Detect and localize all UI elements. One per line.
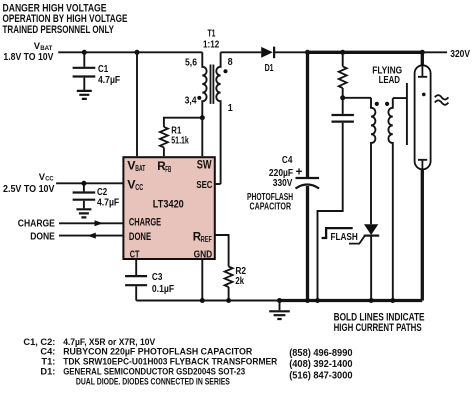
svg-text:(516) 847-3000: (516) 847-3000 [289, 370, 353, 381]
wire SEC pin [215, 183, 221, 185]
svg-text:4.7µF: 4.7µF [98, 75, 120, 86]
svg-text:LEAD: LEAD [379, 75, 400, 86]
wire D1 to C4 node [274, 51, 307, 53]
ground main [269, 301, 290, 320]
node VBAT input label [3, 40, 53, 63]
phase dot secondary [224, 69, 228, 73]
svg-text:LT3420: LT3420 [153, 198, 184, 210]
wire CT pin [135, 259, 137, 275]
capacitor trigger C5 [318, 98, 354, 301]
svg-text:2.5V TO 10V: 2.5V TO 10V [3, 184, 55, 195]
svg-text:DUAL DIODE. DIODES CONNECTED I: DUAL DIODE. DIODES CONNECTED IN SERIES [76, 377, 230, 388]
wire bottom return thin [136, 300, 279, 302]
primary winding [202, 52, 206, 117]
gate [349, 236, 365, 243]
svg-text:FLASH: FLASH [331, 232, 358, 243]
junction ground tap [277, 298, 282, 303]
wire GND pin [201, 259, 203, 301]
svg-text:4.7µF: 4.7µF [97, 198, 119, 209]
wire bottom return bold [278, 299, 422, 302]
svg-text:C1: C1 [98, 64, 109, 75]
svg-text:330V: 330V [273, 178, 293, 189]
wire VBAT rail [58, 51, 202, 53]
capacitor C3 [125, 272, 174, 300]
wire SW pin [201, 118, 203, 157]
junction trigger branch [340, 50, 345, 55]
junction T2 right return [390, 298, 395, 303]
bottom electrode [418, 160, 427, 169]
wire VCC [56, 182, 123, 184]
resistor trigger R3 [339, 52, 347, 98]
diode D1 [261, 47, 274, 75]
junction GND pin [200, 298, 205, 303]
svg-text:CC: CC [45, 176, 54, 183]
svg-text:SW: SW [197, 158, 212, 171]
op IC U1 LT3420 [123, 157, 214, 260]
resistor R2 [225, 266, 247, 300]
ground C1 [77, 91, 92, 99]
notes parts list [23, 337, 277, 388]
svg-text:51.1k: 51.1k [171, 136, 189, 147]
notes phone numbers [289, 348, 353, 382]
svg-text:FB: FB [165, 165, 171, 174]
phase dot left [375, 102, 379, 106]
label flying lead [372, 65, 402, 86]
junction C2 tap [81, 181, 86, 186]
phase dot right [385, 102, 389, 106]
junction VBAT pin branch [135, 50, 140, 55]
svg-text:1: 1 [228, 103, 233, 114]
svg-text:BAT: BAT [135, 164, 145, 173]
node VCC input label [3, 171, 55, 195]
transformer T1 [185, 29, 234, 185]
junction R2 [226, 298, 231, 303]
wire flying lead [393, 83, 407, 145]
junction C1 tap [82, 50, 87, 55]
symbol flashtube approx [435, 95, 449, 105]
svg-text:320V: 320V [450, 49, 470, 60]
svg-text:C3: C3 [152, 272, 163, 283]
svg-text:BAT: BAT [40, 45, 52, 52]
note bold lines [334, 312, 425, 334]
svg-text:3,4: 3,4 [185, 96, 197, 107]
svg-text:TRAINED PERSONNEL ONLY: TRAINED PERSONNEL ONLY [3, 24, 115, 36]
wire RFB link [164, 118, 202, 127]
svg-text:C4: C4 [282, 155, 293, 166]
svg-text:+: + [296, 166, 303, 179]
flash tube [415, 52, 431, 300]
svg-text:DONE: DONE [30, 232, 55, 243]
junction primary bottom / SW [200, 115, 205, 120]
svg-text:8: 8 [228, 57, 233, 68]
svg-text:D1: D1 [265, 63, 274, 74]
svg-text:DONE: DONE [129, 231, 151, 243]
svg-text:REF: REF [201, 235, 212, 244]
capacitor C4 [247, 52, 319, 300]
svg-text:CC: CC [135, 183, 143, 192]
wire RREF pin [215, 235, 229, 267]
capacitor C1 [73, 52, 121, 90]
svg-text:5,6: 5,6 [185, 58, 197, 69]
SCR Q1 [349, 224, 379, 300]
ground C2 [76, 209, 91, 217]
trigger dot [422, 93, 426, 97]
right winding [388, 98, 392, 300]
svg-text:CAPACITOR: CAPACITOR [250, 202, 292, 213]
svg-text:1:12: 1:12 [203, 39, 220, 50]
junction trigger cap return [315, 298, 320, 303]
phase dot primary [197, 96, 201, 100]
top electrode [418, 66, 427, 77]
FLASH signal label [322, 228, 358, 243]
svg-text:CHARGE: CHARGE [129, 217, 161, 229]
svg-text:2k: 2k [235, 276, 244, 287]
svg-text:D1:: D1: [40, 367, 55, 378]
signal CHARGE [18, 218, 124, 229]
svg-text:CT: CT [130, 249, 140, 260]
svg-text:C2: C2 [97, 187, 108, 198]
junction flash tube [420, 50, 425, 55]
transformer T2 trigger [371, 98, 393, 301]
node A junction [340, 95, 345, 100]
svg-text:HIGH CURRENT PATHS: HIGH CURRENT PATHS [334, 322, 422, 334]
left winding [371, 98, 375, 224]
svg-text:SEC: SEC [196, 180, 212, 191]
junction C4 branch [305, 50, 310, 55]
capacitor C2 [73, 183, 120, 208]
svg-text:CHARGE: CHARGE [18, 218, 55, 229]
resistor R1 [160, 126, 189, 157]
core [211, 65, 214, 104]
svg-text:(408) 392-1400: (408) 392-1400 [289, 359, 353, 370]
svg-text:(858) 496-8990: (858) 496-8990 [289, 348, 353, 359]
junction SCR return [369, 298, 374, 303]
signal DONE [30, 232, 123, 243]
svg-text:1.8V TO 10V: 1.8V TO 10V [3, 52, 53, 63]
wire 320V bold rail [306, 51, 422, 54]
svg-text:T1: T1 [208, 29, 216, 40]
wire VBAT pin [136, 52, 138, 156]
wire 320V output [422, 51, 447, 53]
junction C4 return [305, 298, 310, 303]
svg-text:GND: GND [194, 249, 213, 260]
warning text [3, 2, 128, 36]
wire secondary to D1 [221, 51, 262, 53]
wire node A to trigger transformer [343, 97, 371, 99]
svg-text:0.1µF: 0.1µF [152, 284, 174, 295]
secondary winding [216, 52, 220, 184]
